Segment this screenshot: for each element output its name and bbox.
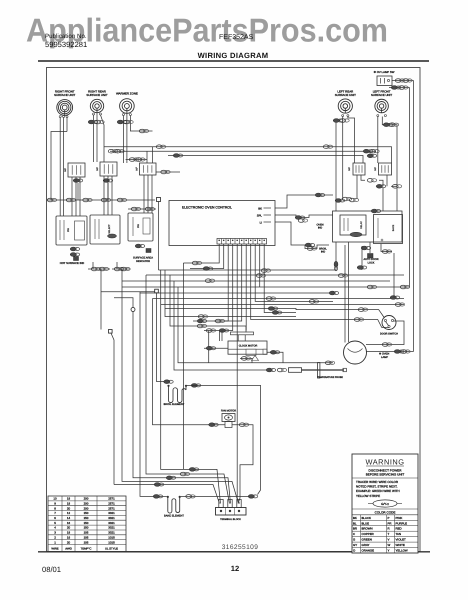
switch infinite warmer xyxy=(140,163,157,175)
connector y200 d xyxy=(101,198,110,202)
svg-text:YELLOW STRIPE: YELLOW STRIPE xyxy=(356,494,380,498)
wire x146 drop xyxy=(146,275,230,504)
indicator hot-surface box xyxy=(56,216,87,245)
switch infinite LF2 xyxy=(379,163,392,175)
wire above F box xyxy=(128,208,156,210)
connector relay top xyxy=(371,209,381,213)
switch selector box E xyxy=(90,215,120,244)
wire node drop xyxy=(158,202,160,271)
connector y200 e xyxy=(117,198,126,202)
svg-text:VIOLET: VIOLET xyxy=(396,538,407,542)
connector lamp right b xyxy=(401,350,410,354)
wire bus y293 xyxy=(140,292,331,294)
wire door to rail xyxy=(366,321,404,345)
svg-text:18: 18 xyxy=(67,497,71,501)
wire clock y348.2 xyxy=(204,347,228,349)
wire EOC drop5 long xyxy=(237,244,239,504)
connector top bus 4 xyxy=(173,154,183,158)
svg-text:18: 18 xyxy=(67,501,71,505)
wire C box drops xyxy=(143,175,145,213)
wire x160.7 drop xyxy=(161,270,221,504)
svg-text:2571: 2571 xyxy=(108,497,115,501)
svg-text:WHITE: WHITE xyxy=(396,543,405,547)
wire EOC drop3 xyxy=(193,244,228,321)
connector below hot-surface 2 xyxy=(70,253,80,257)
svg-text:10: 10 xyxy=(53,497,57,501)
wire clock bracket feed xyxy=(219,331,221,342)
wire x133 drop xyxy=(133,312,231,504)
svg-text:5: 5 xyxy=(54,521,56,525)
svg-text:AWG: AWG xyxy=(65,547,72,551)
svg-text:FAN MOTOR: FAN MOTOR xyxy=(221,410,236,413)
wire EOC drop7 xyxy=(245,244,247,331)
wire top bus y146.7 xyxy=(104,147,392,163)
wire x174 drop xyxy=(174,281,266,370)
connector LI b xyxy=(307,247,316,251)
svg-text:RELAY: RELAY xyxy=(360,221,363,229)
connector y269 b2 xyxy=(121,267,130,271)
wire RF left branch xyxy=(51,132,67,201)
svg-text:3: 3 xyxy=(54,531,56,535)
connector y477.8 xyxy=(166,476,176,480)
svg-text:200: 200 xyxy=(84,501,89,505)
svg-text:2571: 2571 xyxy=(108,506,115,510)
svg-text:BEFORE SERVICING UNIT: BEFORE SERVICING UNIT xyxy=(366,473,405,477)
svg-text:16: 16 xyxy=(67,535,71,539)
svg-text:Y: Y xyxy=(388,549,390,553)
wire LF leads xyxy=(377,117,379,164)
connector relay below b xyxy=(382,250,391,254)
connector drop6 xyxy=(215,319,224,323)
connector y151.2 left xyxy=(108,149,117,153)
EOC terminal strip xyxy=(217,239,267,245)
connector below LR xyxy=(333,119,343,123)
connector below F xyxy=(135,244,145,248)
svg-text:16: 16 xyxy=(67,521,71,525)
svg-text:BLACK: BLACK xyxy=(362,516,372,520)
svg-text:INF: INF xyxy=(64,168,67,172)
svg-text:PR: PR xyxy=(388,521,392,525)
connector door-lamp link xyxy=(382,343,391,347)
IC electronic oven control U1 xyxy=(169,201,275,246)
svg-text:12: 12 xyxy=(67,511,71,515)
svg-text:6: 6 xyxy=(54,516,56,520)
svg-text:200: 200 xyxy=(84,506,89,510)
wire relay drop b xyxy=(381,244,392,252)
svg-text:INDICATOR: INDICATOR xyxy=(136,260,150,263)
connector probe a xyxy=(266,368,276,372)
svg-text:SELECT: SELECT xyxy=(108,224,111,234)
svg-text:ELECTRONIC OVEN CONTROL: ELECTRONIC OVEN CONTROL xyxy=(182,206,232,210)
connector LI a xyxy=(305,243,315,247)
svg-text:12: 12 xyxy=(231,564,239,573)
connector y200 c xyxy=(83,198,92,202)
clock motor M2 xyxy=(231,332,254,335)
wire fan run xyxy=(153,299,226,425)
connector y496 left xyxy=(153,495,163,499)
wire warmer sw side xyxy=(156,171,180,173)
svg-text:IND: IND xyxy=(318,227,323,230)
connector WZ branch xyxy=(139,129,148,133)
svg-text:4: 4 xyxy=(54,526,56,530)
svg-text:18: 18 xyxy=(67,531,71,535)
svg-text:T: T xyxy=(388,532,390,536)
connector y362.8 xyxy=(325,361,334,365)
indicator box F xyxy=(128,213,153,241)
wire y484.5 run xyxy=(114,485,220,504)
connector drop3 xyxy=(197,319,207,323)
svg-text:CLOCK MOTOR: CLOCK MOTOR xyxy=(239,344,258,347)
svg-text:R: R xyxy=(388,527,390,531)
connector below WZ xyxy=(117,120,127,124)
connector clock y348.2 xyxy=(206,346,216,350)
connector probe b xyxy=(277,368,286,372)
connector y326 xyxy=(197,324,206,328)
connector bus y298.5 b xyxy=(390,296,400,300)
diagram border xyxy=(47,68,421,552)
svg-text:150: 150 xyxy=(84,516,89,520)
wire EOC drop2 xyxy=(190,244,224,269)
svg-text:G/Y-□: G/Y-□ xyxy=(381,502,389,506)
connector y200 a xyxy=(47,198,56,202)
wire diagonal from square xyxy=(111,333,114,484)
svg-text:WIRE: WIRE xyxy=(51,547,58,551)
svg-text:2571: 2571 xyxy=(108,501,115,505)
svg-text:14: 14 xyxy=(67,516,71,520)
title rule xyxy=(38,60,429,62)
terminal square F xyxy=(146,249,151,253)
svg-text:3321: 3321 xyxy=(108,516,115,520)
terminal square relay xyxy=(368,254,374,259)
svg-text:3321: 3321 xyxy=(108,531,115,535)
svg-text:5995392281: 5995392281 xyxy=(45,40,87,49)
svg-text:GREEN: GREEN xyxy=(362,538,372,542)
connector lamp stub xyxy=(357,266,367,270)
switch infinite RR xyxy=(100,162,117,176)
connector lamp right a xyxy=(394,350,404,354)
connector bus y308.5 xyxy=(268,307,278,311)
svg-text:P: P xyxy=(388,516,390,520)
wire clock bottom xyxy=(240,358,252,362)
wire x122 drop xyxy=(122,269,239,504)
connector fan left xyxy=(209,423,219,427)
wire right rail A xyxy=(413,81,415,352)
svg-text:TERMINAL BLOCK: TERMINAL BLOCK xyxy=(220,518,241,521)
connector warmer sw side xyxy=(161,170,170,174)
svg-text:20: 20 xyxy=(67,540,71,544)
warning box xyxy=(352,454,418,553)
wire RR leads xyxy=(93,115,95,162)
svg-text:INF: INF xyxy=(374,167,377,171)
svg-text:SURFACE UNIT: SURFACE UNIT xyxy=(86,93,107,97)
svg-text:W: W xyxy=(388,543,391,547)
svg-text:9: 9 xyxy=(54,501,56,505)
svg-text:105: 105 xyxy=(84,540,89,544)
svg-text:08/01: 08/01 xyxy=(42,565,61,574)
connector y200 b xyxy=(66,198,75,202)
svg-text:V: V xyxy=(388,538,390,542)
connector y269 b1 xyxy=(114,267,123,271)
connector bus y287 b xyxy=(400,285,409,289)
svg-text:2: 2 xyxy=(54,535,56,539)
svg-text:20: 20 xyxy=(67,526,71,530)
svg-text:GRAY: GRAY xyxy=(362,543,370,547)
svg-text:BLUE: BLUE xyxy=(362,521,370,525)
svg-text:WIRING DIAGRAM: WIRING DIAGRAM xyxy=(198,51,269,60)
svg-text:WARMER ZONE: WARMER ZONE xyxy=(116,92,138,96)
svg-text:INF: INF xyxy=(136,167,139,171)
svg-text:WARNING: WARNING xyxy=(366,458,405,467)
connector drop8 xyxy=(354,318,363,322)
connector top bus 1 xyxy=(156,145,165,149)
svg-text:TEMPERATURE PROBE: TEMPERATURE PROBE xyxy=(317,376,343,379)
connector SPL a xyxy=(295,216,305,220)
wire y269 b xyxy=(112,268,130,270)
switch infinite LR2 xyxy=(353,163,365,175)
svg-text:SW: SW xyxy=(137,223,140,228)
resistor RR surface unit coil xyxy=(90,99,103,112)
connector top bus 5 xyxy=(367,154,377,158)
wire right rail B xyxy=(409,88,411,288)
relay oven K1 xyxy=(340,215,366,235)
svg-text:150: 150 xyxy=(84,521,89,525)
connector y159.5 xyxy=(129,158,138,162)
connector relay below a xyxy=(361,246,371,250)
wire EOC LI out xyxy=(275,222,329,249)
wire x101 drop xyxy=(100,269,102,330)
wire bus y281 xyxy=(122,280,390,282)
connector below RR switch xyxy=(103,179,113,183)
svg-text:INF: INF xyxy=(348,167,351,171)
svg-text:BROWN: BROWN xyxy=(362,527,373,531)
connector clock right xyxy=(270,350,280,354)
svg-text:GY: GY xyxy=(353,543,357,547)
svg-text:PINK: PINK xyxy=(396,516,403,520)
wire right sw drops xyxy=(386,175,388,186)
resistor warmer zone coil xyxy=(120,99,135,114)
connector right sw y186 a xyxy=(376,184,386,188)
connector y316.5 xyxy=(198,315,207,319)
wire LR leads xyxy=(342,117,344,200)
svg-text:BROIL ELEMENT: BROIL ELEMENT xyxy=(164,403,185,406)
wire x170 drop xyxy=(170,275,246,332)
connector above F b xyxy=(145,207,154,211)
connector broil right xyxy=(191,384,201,388)
relay bake K2 xyxy=(374,215,403,244)
svg-text:105: 105 xyxy=(84,531,89,535)
svg-text:1015: 1015 xyxy=(108,535,115,539)
svg-text:UL STYLE: UL STYLE xyxy=(105,547,118,551)
svg-text:SW: SW xyxy=(67,227,70,232)
svg-text:TRACER WIRE: WIRE COLOR: TRACER WIRE: WIRE COLOR xyxy=(356,480,399,484)
connector broil feed xyxy=(164,380,174,384)
wire EOC drop1 xyxy=(183,244,219,263)
svg-text:8: 8 xyxy=(54,506,56,510)
wire bus y304.5 xyxy=(161,304,404,306)
wire lamp right xyxy=(367,351,414,353)
svg-text:Publication No.: Publication No. xyxy=(45,33,87,40)
wire x140 drop xyxy=(140,292,167,497)
wire right sw link xyxy=(356,175,358,199)
connector drop11 xyxy=(272,311,282,315)
svg-text:DOOR SWITCH: DOOR SWITCH xyxy=(380,333,398,336)
wire A box drops xyxy=(71,177,73,216)
wire top bus y151.2 xyxy=(110,150,376,152)
connector y301.4 xyxy=(309,300,318,304)
connector x336 vertical xyxy=(334,261,338,271)
wire EOC drop4 xyxy=(204,244,233,331)
switch infinite RF xyxy=(68,163,85,177)
svg-text:SPL: SPL xyxy=(257,213,263,217)
connector clock bottom xyxy=(241,357,250,361)
connector bus y293 end xyxy=(329,291,339,295)
wire bus y287 xyxy=(122,286,410,288)
svg-text:105: 105 xyxy=(84,535,89,539)
wire gauge table xyxy=(48,496,126,552)
switch door S3 xyxy=(382,316,396,330)
svg-text:150: 150 xyxy=(84,511,89,515)
connector below LF xyxy=(383,123,393,127)
relay enclosure xyxy=(333,211,403,242)
svg-text:3321: 3321 xyxy=(108,526,115,530)
footer rule xyxy=(38,551,430,553)
connector door feed xyxy=(358,308,367,312)
wire y269 left stub xyxy=(92,262,94,269)
wire bus y200 xyxy=(47,199,155,201)
wire broil right drop xyxy=(187,385,261,494)
probe temperature P1 xyxy=(289,368,302,373)
node junction square top xyxy=(157,198,161,202)
svg-text:BK: BK xyxy=(353,516,357,520)
wire bake right xyxy=(181,495,250,497)
connector bus y275 xyxy=(256,274,265,278)
connector below hot-surface 1 xyxy=(70,247,80,251)
wire x156.5 broil drop xyxy=(157,293,165,382)
wire WZ branch to top bus xyxy=(130,125,152,131)
wire lamp leads up xyxy=(344,245,346,343)
connector top bus 2 xyxy=(323,145,332,149)
svg-text:BK: BK xyxy=(258,206,262,210)
terminal square hot-surface xyxy=(74,257,79,261)
connector lamp sw lower xyxy=(391,86,401,90)
wire EOC BK out xyxy=(275,195,333,208)
svg-text:LOCK: LOCK xyxy=(368,261,375,264)
wire BK junction xyxy=(335,195,337,211)
connector drop4 xyxy=(219,329,229,333)
svg-text:INF: INF xyxy=(96,167,99,171)
wire EOC drop6 xyxy=(214,244,242,321)
svg-text:316255109: 316255109 xyxy=(222,544,259,551)
connector SPL b xyxy=(298,219,307,223)
wire EOC SPL out xyxy=(275,215,333,218)
connector above F a xyxy=(131,207,140,211)
connector drop1 xyxy=(192,261,201,265)
connector top bus 3 xyxy=(363,149,373,153)
node square mid xyxy=(155,289,159,293)
resistor LR surface unit coil xyxy=(338,99,352,113)
connector below RF switch xyxy=(73,179,83,183)
connector relay feed row xyxy=(335,199,345,203)
svg-text:7: 7 xyxy=(54,511,56,515)
wire EOC drop11 xyxy=(264,244,296,313)
svg-text:SURFACE UNIT: SURFACE UNIT xyxy=(54,93,75,97)
svg-text:EXAMPLE: GREEN WIRE WITH: EXAMPLE: GREEN WIRE WITH xyxy=(356,489,400,493)
connector below right switches xyxy=(367,179,376,183)
node circle x133 xyxy=(131,308,135,312)
connector bake mid xyxy=(186,495,195,499)
wire RF leads xyxy=(59,118,61,217)
heater broil element R1 xyxy=(167,385,169,387)
svg-text:✱ OV LAMP SW: ✱ OV LAMP SW xyxy=(374,70,395,74)
svg-text:20: 20 xyxy=(67,506,71,510)
wire bus y270 xyxy=(159,242,337,270)
svg-text:TAN: TAN xyxy=(396,532,402,536)
wire RR sw drop xyxy=(107,183,109,200)
svg-text:FEF352AS: FEF352AS xyxy=(219,34,254,41)
svg-text:C: C xyxy=(353,532,355,536)
wire bus y298.5 xyxy=(153,298,405,300)
connector y484.5 xyxy=(154,483,164,487)
svg-text:3321: 3321 xyxy=(108,521,115,525)
svg-text:1015: 1015 xyxy=(108,540,115,544)
wire relay drop a xyxy=(369,242,371,253)
wire EOC drop10 xyxy=(259,244,261,287)
wire EOC drop9 xyxy=(255,244,333,301)
svg-text:BL: BL xyxy=(353,521,357,525)
wire top bus y155.5 xyxy=(168,156,363,164)
svg-text:IND: IND xyxy=(321,251,326,254)
svg-text:BAKE: BAKE xyxy=(392,224,395,231)
heater bake element R2 xyxy=(167,496,169,498)
svg-text:LAMP: LAMP xyxy=(381,356,388,359)
lamp oven DS1 xyxy=(344,341,367,364)
wire y159.5 xyxy=(126,159,147,161)
resistor RF surface unit coil xyxy=(57,100,73,116)
svg-text:HOT SURFACE IND: HOT SURFACE IND xyxy=(60,262,84,265)
svg-text:TEMP°C: TEMP°C xyxy=(81,547,92,551)
resistor LF surface unit coil xyxy=(375,99,389,113)
svg-text:RED: RED xyxy=(396,527,402,531)
connector fan right xyxy=(239,423,248,427)
svg-text:COPPER: COPPER xyxy=(362,532,374,536)
wire x178 drop xyxy=(178,287,333,363)
connector bus y298.5 a xyxy=(266,297,275,301)
wire to mid square xyxy=(101,291,155,293)
svg-text:BAKE ELEMENT: BAKE ELEMENT xyxy=(164,515,184,518)
wire bus y308.5 door feed xyxy=(165,309,385,319)
wire x183 drop xyxy=(182,263,184,469)
wire WZ leads xyxy=(122,116,124,164)
connector y269 a1 xyxy=(91,267,100,271)
wire lamp stub xyxy=(361,246,363,270)
connector below RR xyxy=(88,120,98,124)
wire clock right xyxy=(267,352,283,363)
svg-text:YELLOW: YELLOW xyxy=(396,549,408,553)
svg-text:BR: BR xyxy=(353,527,357,531)
svg-text:LI: LI xyxy=(260,220,263,224)
svg-text:PURPLE: PURPLE xyxy=(396,521,408,525)
wire B box drops xyxy=(103,176,105,215)
connector bus y304.5 end xyxy=(395,303,404,307)
svg-text:200: 200 xyxy=(84,497,89,501)
connector y469.4 xyxy=(189,468,199,472)
svg-text:150: 150 xyxy=(84,526,89,530)
svg-text:SURFACE UNIT: SURFACE UNIT xyxy=(371,93,392,97)
connector y269 a2 xyxy=(99,267,108,271)
wire EOC drop8 door lower xyxy=(251,244,389,327)
svg-text:3321: 3321 xyxy=(108,511,115,515)
wire x165 drop xyxy=(165,270,296,317)
